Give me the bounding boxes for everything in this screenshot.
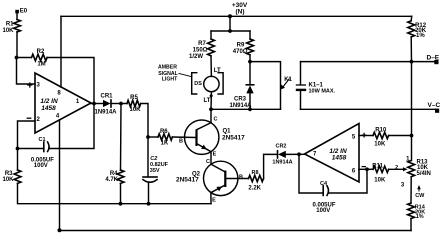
svg-text:R9: R9 (237, 43, 245, 49)
wire output to CR1 (91, 103, 103, 105)
node junction C2/bus (147, 202, 151, 206)
svg-text:C: C (214, 116, 218, 122)
svg-text:C: C (206, 159, 210, 165)
wire CR2 to op-amp2 output (286, 153, 305, 155)
node op-amp1 output (92, 102, 96, 106)
resistor R12 20K 1% (408, 21, 427, 39)
wire R12 to D-E line (410, 37, 412, 62)
svg-text:1458: 1458 (332, 155, 347, 162)
wire Q2 base to R8 (226, 178, 248, 180)
svg-text:R11: R11 (372, 164, 383, 170)
capacitor C4 0.005UF 100V (312, 181, 335, 214)
wire C4 to pin 6 (328, 169, 367, 193)
svg-text:B: B (239, 174, 243, 180)
wire node to C1 (18, 148, 44, 150)
relay contact K1-1 (296, 62, 336, 110)
svg-text:D–E: D–E (427, 54, 440, 61)
resistor R6 1K (158, 129, 172, 147)
resistor R2 1M (32, 49, 48, 68)
wire R7 to lamp (210, 56, 212, 77)
wire C1 to output node (49, 104, 94, 149)
wire node to R3 (17, 149, 19, 171)
node junction supply branch (228, 29, 232, 33)
annotation CW arrow (415, 185, 425, 199)
wire Q1 collector to lamp node (210, 109, 212, 122)
node junction R5/C2/R6 (146, 135, 150, 139)
svg-text:10K: 10K (2, 28, 14, 34)
svg-text:R3: R3 (5, 171, 13, 177)
resistor R14 20K 1% (408, 203, 426, 220)
node junction feedback/pin6 (365, 167, 369, 171)
wire R3 to ground bus (18, 183, 212, 203)
wire branch to R7 (210, 31, 212, 39)
svg-text:C2: C2 (150, 156, 157, 162)
wire R10 to divider rail (389, 135, 412, 137)
svg-text:DS: DS (194, 81, 202, 87)
wire contact bottom to terminal V-C (301, 108, 437, 110)
node junction pin2/C1/R3 (16, 147, 20, 151)
node junction lamp/Q1 collector (209, 107, 213, 111)
svg-text:AMBER: AMBER (158, 65, 177, 71)
diode CR1 1N914A (94, 93, 117, 115)
svg-text:CR3: CR3 (234, 97, 247, 103)
svg-text:K1: K1 (284, 77, 292, 83)
svg-text:R7: R7 (198, 41, 206, 47)
svg-text:R8: R8 (251, 170, 258, 176)
wire pin 8 to +30V rail (60, 16, 62, 87)
resistor R8 2.2K (248, 170, 263, 192)
svg-text:10K: 10K (374, 178, 386, 184)
node junction R9/CR3/coil (248, 60, 252, 64)
svg-text:LT: LT (204, 98, 211, 104)
svg-text:1458: 1458 (41, 105, 56, 112)
svg-text:1N914A: 1N914A (94, 110, 117, 116)
svg-text:(N): (N) (235, 9, 244, 16)
wire Q2 emitter to ground bus (210, 193, 212, 204)
resistor R4 4.7K (105, 170, 124, 183)
node junction +30V tap (228, 14, 232, 18)
resistor R10 10K (373, 128, 389, 148)
node junction R10/rail (410, 134, 414, 138)
svg-text:E0: E0 (20, 9, 28, 15)
terminal +30V (N) (232, 2, 248, 16)
svg-text:B: B (179, 138, 183, 144)
lamp DS1 amber signal light (192, 73, 223, 94)
wire node to R2 (17, 57, 32, 59)
wire CR1 to node A (111, 103, 121, 105)
node op-amp2 output junction (297, 152, 301, 156)
svg-text:1K: 1K (161, 140, 169, 146)
wire pin 4 to bottom rail (59, 120, 61, 231)
wire C2 to ground bus (148, 183, 150, 204)
wire R6 to Q1 base (172, 136, 196, 139)
wire R5 to node B (141, 104, 148, 138)
svg-text:V–C: V–C (428, 102, 441, 109)
relay coil K1 (250, 62, 293, 110)
svg-text:R2: R2 (37, 49, 45, 55)
wire R1 to node E0jct (16, 32, 18, 58)
terminal V-C (428, 102, 441, 113)
svg-text:4.7K: 4.7K (105, 177, 118, 183)
svg-text:R5: R5 (130, 95, 138, 101)
svg-text:2.2K: 2.2K (248, 186, 261, 192)
transistor Q1 2N5417 (185, 116, 246, 157)
pin 5 plus sign (362, 133, 367, 138)
wire lamp to Q1 collector node (210, 92, 212, 110)
wire R8 to CR2 (264, 154, 277, 178)
op-amp U1a 1/2 1458 (27, 73, 91, 133)
potentiometer R13 10K (401, 157, 431, 189)
wire node B to R6 (148, 136, 158, 138)
svg-text:1%: 1% (416, 214, 424, 220)
wire contact top to terminal D-E (301, 61, 436, 63)
resistor R11 10K (372, 164, 388, 184)
node junction R12/D-E (410, 60, 414, 64)
wire +30V tap down (229, 16, 231, 31)
transistor Q2 2N5417 (176, 159, 238, 204)
wire E0 to R1 (16, 13, 18, 19)
svg-text:K1–1: K1–1 (309, 82, 324, 88)
svg-text:R1: R1 (6, 22, 14, 28)
diode CR2 1N914A (272, 144, 292, 166)
wire rail corner to R12 (410, 16, 413, 21)
svg-text:C4: C4 (320, 181, 328, 187)
resistor R7 150 ohm 1/2W (189, 39, 214, 60)
svg-text:CW: CW (415, 193, 425, 199)
svg-text:1M: 1M (37, 62, 45, 68)
wire pin 2 input (18, 121, 36, 149)
wire bottom rail (60, 230, 412, 232)
wire divider rail down (411, 62, 413, 161)
pin 6 minus sign (362, 166, 367, 168)
wire node to op-amp pin 3 (17, 58, 36, 85)
wire pin 6 to R11 (359, 168, 373, 170)
terminal E0 (15, 9, 28, 15)
wire node B to C2 (147, 137, 149, 177)
wire node A to R5 (121, 103, 127, 105)
svg-text:100V: 100V (34, 163, 48, 169)
wire R11 to pot wiper arrow (389, 168, 404, 170)
capacitor C1 0.005UF 100V (31, 137, 54, 169)
svg-text:R10: R10 (375, 128, 387, 134)
wire Q1 emitter to Q2 collector (210, 152, 212, 165)
wire +30V rail (61, 15, 412, 17)
wire R9 to CR3 node (249, 55, 251, 62)
svg-text:LIGHT: LIGHT (162, 77, 178, 83)
svg-text:5/4IN: 5/4IN (417, 171, 431, 177)
resistor R9 470 ohm (233, 39, 254, 55)
annotation amber signal light (158, 65, 192, 83)
wire pin 5 to R10 (359, 135, 373, 137)
svg-text:100V: 100V (316, 208, 330, 214)
svg-text:2: 2 (395, 165, 398, 171)
svg-text:10K: 10K (374, 141, 386, 147)
svg-text:E: E (212, 197, 216, 203)
svg-text:CR1: CR1 (100, 93, 113, 99)
svg-text:10K: 10K (2, 177, 14, 183)
svg-text:470Ω: 470Ω (233, 49, 248, 55)
svg-text:150Ω: 150Ω (193, 47, 208, 53)
svg-text:C1: C1 (39, 137, 46, 143)
wire op-amp2 feedback loop (299, 154, 323, 193)
svg-text:2N5417: 2N5417 (222, 134, 245, 141)
svg-text:10W MAX.: 10W MAX. (309, 88, 336, 94)
svg-text:2N5417: 2N5417 (176, 176, 199, 183)
svg-text:E: E (213, 151, 217, 157)
resistor R1 10K (2, 20, 20, 35)
node junction R4/bus (119, 202, 123, 206)
svg-text:35V: 35V (150, 168, 160, 174)
wire node to R4 (120, 104, 123, 171)
wire R2 to output feedback (47, 58, 94, 104)
terminal D-E (427, 54, 440, 64)
op-amp U1b 1/2 1458 (305, 124, 360, 183)
node junction pin4/bottom rail (58, 228, 62, 232)
capacitor C2 0.82UF 35V (143, 156, 169, 182)
svg-text:1/2W: 1/2W (189, 54, 203, 60)
diode CR3 1N914A (229, 62, 253, 110)
wire branch to R9 (249, 31, 251, 39)
svg-text:R6: R6 (160, 129, 168, 135)
svg-text:1N914A: 1N914A (272, 159, 292, 165)
svg-text:1%: 1% (416, 33, 425, 39)
resistor R3 10K (2, 170, 20, 183)
svg-text:CR2: CR2 (275, 144, 286, 150)
svg-text:10K: 10K (129, 107, 141, 113)
resistor R5 10K (127, 95, 141, 113)
wire R13 to R14 (410, 177, 412, 203)
wire supply branch R7-R9 (211, 30, 250, 32)
wire R14 to bottom rail (410, 219, 412, 231)
node junction CR1/R4/R5 (119, 102, 123, 106)
node junction R1/R2/pin3 (15, 56, 19, 60)
wire R4 to ground bus (120, 183, 122, 203)
wire Q1 collector node to coil (211, 108, 281, 110)
node junction CR3/coil bottom (248, 107, 252, 111)
